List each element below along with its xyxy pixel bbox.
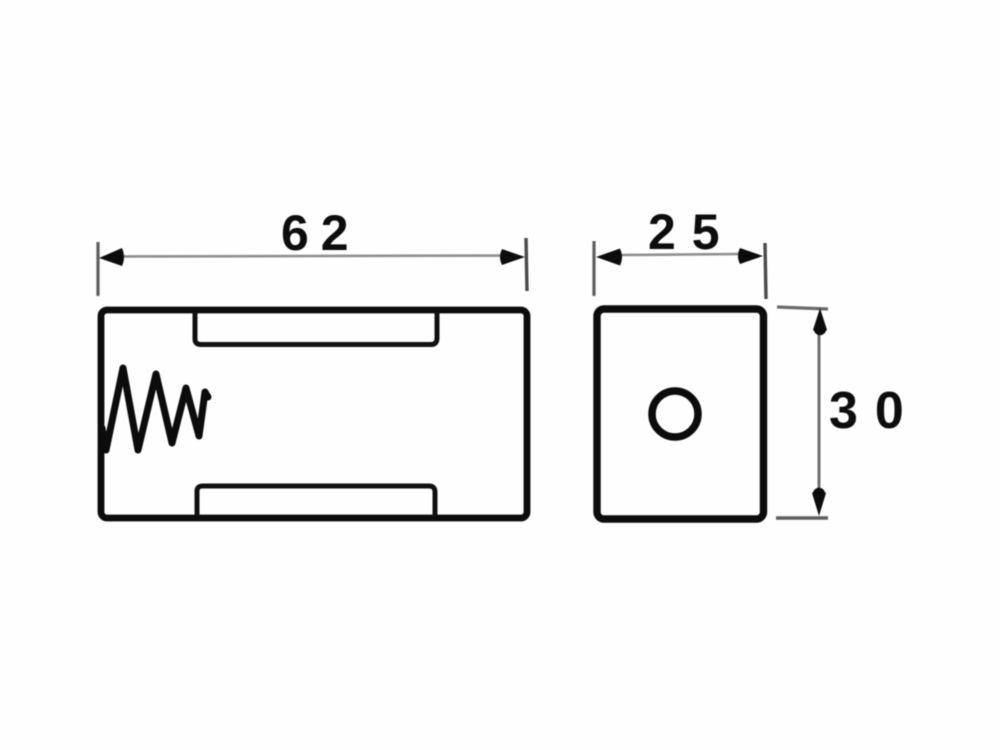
dim 25: left extension line xyxy=(592,241,595,296)
dim 25: right extension line xyxy=(765,243,766,299)
svg-text:62: 62 xyxy=(281,205,361,261)
dim 30: bottom arrowhead xyxy=(812,491,826,517)
dim 62: left arrowhead xyxy=(99,248,124,266)
dim 25: dimension line xyxy=(620,254,740,255)
terminal hole (circle) xyxy=(652,391,698,437)
holder body outline (end view) xyxy=(597,309,764,519)
dim 30: bottom extension line xyxy=(776,516,828,519)
top contact slot xyxy=(195,312,437,345)
dim 62: left extension line xyxy=(96,242,99,296)
dim 25: right arrowhead xyxy=(738,248,763,264)
svg-text:30: 30 xyxy=(829,382,921,440)
dim 62: dimension line xyxy=(110,256,516,257)
dim 62: right arrowhead xyxy=(500,249,525,265)
svg-text:25: 25 xyxy=(648,204,736,260)
holder body outline (side view) xyxy=(101,310,527,518)
dim 62: right extension line xyxy=(526,238,527,291)
dim 25: left arrowhead xyxy=(596,249,622,266)
bottom contact slot xyxy=(197,486,435,516)
dim 30: top arrowhead xyxy=(813,308,827,333)
spring (zigzag) xyxy=(102,368,208,450)
dim 30: dimension line xyxy=(818,330,821,495)
dim 30: top extension line xyxy=(777,307,828,309)
